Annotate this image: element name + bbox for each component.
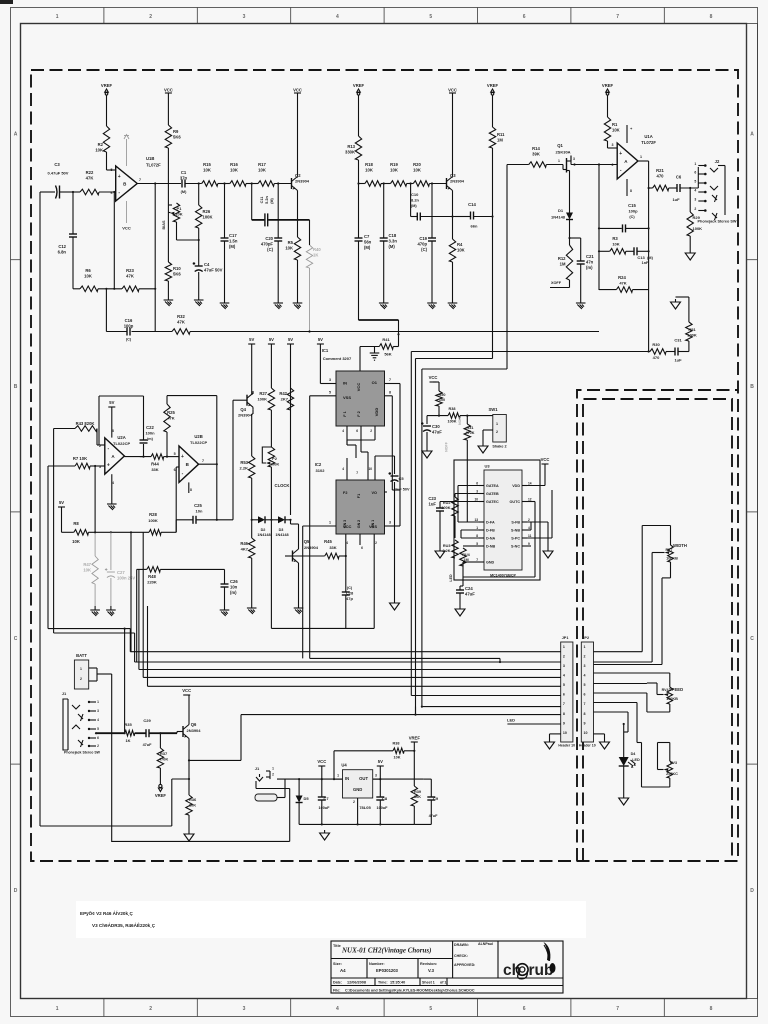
- capacitor C29: [145, 729, 147, 737]
- svg-text:3: 3: [573, 157, 575, 161]
- svg-text:R23: R23: [126, 268, 134, 273]
- svg-text:2: 2: [353, 800, 355, 804]
- svg-text:WIDTH: WIDTH: [673, 543, 687, 548]
- svg-text:C17: C17: [229, 233, 237, 238]
- svg-text:R4: R4: [457, 242, 463, 247]
- svg-text:(M): (M): [411, 204, 417, 208]
- wire q6 e: [188, 741, 190, 761]
- svg-text:C9: C9: [433, 796, 439, 801]
- svg-text:10K: 10K: [612, 127, 620, 132]
- svg-text:1uF: 1uF: [429, 501, 437, 506]
- svg-text:C19: C19: [419, 236, 427, 241]
- wire R43 left: [53, 429, 55, 634]
- wire gnd rail: [299, 823, 414, 825]
- JP1 gnd: [550, 733, 561, 735]
- svg-text:D-NB: D-NB: [486, 544, 496, 548]
- resistor R39: [413, 751, 415, 786]
- resistor R27: [268, 388, 274, 410]
- svg-text:IC2: IC2: [315, 462, 322, 467]
- resistor R16: [230, 181, 246, 187]
- svg-text:5: 5: [329, 391, 331, 395]
- svg-text:TL022CP: TL022CP: [113, 441, 130, 446]
- svg-text:(m): (m): [586, 265, 593, 270]
- IC1 top vcc: [359, 347, 361, 372]
- wire U2B fb: [175, 520, 177, 533]
- capacitor C12: [72, 192, 74, 234]
- svg-text:R48: R48: [148, 574, 156, 579]
- svg-text:P2: P2: [272, 456, 278, 461]
- ground SW1: [482, 443, 484, 446]
- svg-text:GND: GND: [486, 560, 495, 564]
- svg-text:VREF: VREF: [353, 83, 365, 88]
- capacitor C10: [410, 184, 412, 217]
- svg-text:470K: 470K: [465, 431, 474, 435]
- svg-text:9: 9: [563, 721, 565, 725]
- capacitor C30: [426, 416, 428, 424]
- svg-text:33K: 33K: [329, 545, 336, 550]
- svg-text:Q6: Q6: [191, 722, 197, 727]
- svg-text:R8: R8: [73, 521, 79, 526]
- ground C4: [198, 296, 200, 300]
- svg-text:R20: R20: [413, 162, 421, 167]
- svg-text:5: 5: [584, 683, 586, 687]
- wire lfo vert1: [130, 532, 132, 651]
- svg-text:R14: R14: [532, 146, 540, 151]
- svg-text:OUT: OUT: [359, 776, 368, 781]
- ground C24: [459, 606, 461, 609]
- wire bias: [167, 148, 169, 262]
- wire jp2 p4: [594, 672, 670, 674]
- wire vcc row: [427, 415, 448, 417]
- svg-text:5V: 5V: [288, 337, 293, 342]
- U1A power: [626, 125, 628, 143]
- svg-text:C7: C7: [364, 234, 370, 239]
- wire R45-IC2: [345, 540, 347, 556]
- svg-text:330K: 330K: [345, 149, 355, 154]
- svg-text:F 2: F 2: [357, 411, 361, 417]
- capacitor C20: [277, 184, 279, 239]
- control panel dashed boundary inner: [583, 399, 732, 861]
- svg-text:2: 2: [528, 518, 530, 522]
- svg-text:8: 8: [112, 429, 114, 433]
- svg-text:VREF: VREF: [155, 793, 167, 798]
- resistor R23: [122, 286, 139, 292]
- svg-text:1uF: 1uF: [672, 197, 680, 202]
- svg-text:8: 8: [389, 391, 391, 395]
- cherub logo: [503, 942, 556, 979]
- svg-text:3: 3: [389, 521, 391, 525]
- svg-text:D3: D3: [279, 528, 284, 532]
- svg-text:C:\Documents and Settings\Kyle: C:\Documents and Settings\Kyle.KYLES-ROO…: [345, 989, 475, 993]
- svg-text:R43 820K: R43 820K: [76, 421, 95, 426]
- resistor R28: [149, 530, 161, 536]
- svg-text:2: 2: [97, 744, 99, 748]
- svg-text:CHECK:: CHECK:: [454, 954, 468, 958]
- ground power: [324, 830, 326, 833]
- svg-text:V.3: V.3: [428, 968, 435, 973]
- svg-text:R9: R9: [173, 129, 179, 134]
- svg-text:2: 2: [375, 541, 377, 545]
- capacitor C21: [580, 238, 582, 261]
- svg-text:7: 7: [139, 178, 141, 182]
- svg-text:4: 4: [336, 14, 339, 20]
- svg-text:3: 3: [584, 664, 586, 668]
- svg-text:C14: C14: [468, 202, 476, 207]
- resistor R18: [365, 181, 381, 187]
- svg-text:5V: 5V: [318, 337, 323, 342]
- svg-text:13: 13: [474, 518, 478, 522]
- svg-text:4: 4: [563, 674, 565, 678]
- svg-text:C22: C22: [146, 425, 154, 430]
- svg-text:10K: 10K: [413, 167, 421, 172]
- svg-text:B: B: [750, 384, 754, 390]
- control panel dashed divider: [577, 390, 738, 861]
- svg-text:100KB: 100KB: [666, 697, 678, 701]
- wire riser A: [410, 352, 412, 696]
- resistor R37: [159, 733, 161, 748]
- op-amp U1A: [617, 143, 638, 179]
- IC2 top pins: [346, 458, 348, 480]
- svg-text:47K: 47K: [86, 175, 94, 180]
- pot RV7 width: [668, 545, 674, 562]
- capacitor C7b: [321, 779, 323, 797]
- svg-text:C7: C7: [323, 796, 329, 801]
- wire Q5 base: [285, 555, 293, 557]
- wire riser C: [421, 369, 423, 707]
- svg-text:APPROVED:: APPROVED:: [454, 963, 475, 967]
- wire mute: [171, 779, 173, 826]
- feedback net: [598, 165, 600, 291]
- U2A gnd: [111, 474, 113, 500]
- svg-text:VCC: VCC: [293, 88, 302, 93]
- svg-text:1M: 1M: [497, 137, 503, 142]
- diode D2: [252, 519, 258, 521]
- svg-text:TL022CP: TL022CP: [190, 440, 207, 445]
- svg-text:11: 11: [528, 534, 532, 538]
- svg-text:S-FB: S-FB: [511, 520, 520, 524]
- svg-text:9: 9: [528, 542, 530, 546]
- wire Q2 emitter: [297, 193, 299, 238]
- svg-text:1: 1: [97, 700, 99, 704]
- svg-text:5K6: 5K6: [173, 134, 181, 139]
- svg-text:C16: C16: [125, 318, 133, 323]
- svg-text:R50: R50: [439, 393, 446, 397]
- svg-text:4: 4: [342, 467, 344, 471]
- capacitor C19: [431, 184, 433, 239]
- wire jp2 p5: [594, 683, 647, 685]
- svg-text:56n: 56n: [364, 239, 372, 244]
- svg-text:8: 8: [190, 488, 192, 492]
- op-amp U1B: [116, 166, 138, 201]
- svg-text:5: 5: [563, 683, 565, 687]
- svg-text:470: 470: [657, 173, 665, 178]
- wire ic2 riser: [391, 404, 393, 490]
- svg-text:3: 3: [243, 1006, 246, 1012]
- wire j3 left: [255, 781, 257, 789]
- svg-text:R22: R22: [86, 170, 94, 175]
- svg-text:SW1: SW1: [488, 407, 498, 412]
- svg-text:1N4148: 1N4148: [257, 533, 270, 537]
- wire osc out: [216, 519, 218, 521]
- svg-text:1M: 1M: [560, 261, 566, 266]
- svg-text:100n: 100n: [145, 431, 155, 436]
- svg-text:rub: rub: [529, 962, 554, 979]
- wire R14-Q1: [546, 164, 563, 166]
- svg-text:Revision:: Revision:: [420, 962, 437, 966]
- long bus 658: [310, 657, 500, 659]
- svg-text:R53: R53: [240, 460, 248, 465]
- svg-text:100: 100: [439, 398, 445, 402]
- svg-text:100p: 100p: [628, 209, 638, 214]
- svg-text:R7 10K: R7 10K: [73, 456, 87, 461]
- bus v5: [142, 604, 144, 677]
- svg-text:C12: C12: [58, 244, 66, 249]
- capacitor C27 not fitted: [110, 532, 112, 570]
- capacitor C22: [140, 456, 144, 458]
- resistor RU3: [452, 540, 458, 558]
- capacitor C4: [198, 240, 200, 266]
- svg-text:3: 3: [243, 14, 246, 20]
- svg-text:6: 6: [356, 429, 358, 433]
- svg-text:RU4: RU4: [462, 553, 470, 557]
- wire fb pin6: [113, 192, 115, 289]
- transistor Q4: [246, 395, 248, 406]
- wire D1 bottom: [570, 237, 581, 239]
- resistor R31: [466, 416, 468, 424]
- svg-text:2.2K: 2.2K: [442, 549, 450, 553]
- wire R22 to pin6: [99, 191, 116, 193]
- svg-text:1: 1: [80, 667, 82, 671]
- svg-text:R36: R36: [189, 797, 197, 802]
- svg-text:1: 1: [558, 159, 560, 163]
- svg-text:C: C: [14, 636, 18, 642]
- svg-text:8: 8: [476, 534, 478, 538]
- svg-text:6: 6: [361, 546, 363, 550]
- svg-text:D-FB: D-FB: [486, 528, 495, 532]
- svg-text:VREF: VREF: [487, 83, 499, 88]
- svg-text:100K: 100K: [203, 214, 213, 219]
- svg-text:R46: R46: [240, 541, 248, 546]
- svg-text:4: 4: [336, 1006, 339, 1012]
- wire f1: [346, 426, 348, 445]
- svg-text:Sheet 1: Sheet 1: [422, 981, 435, 985]
- pot P1: [168, 204, 172, 206]
- ground Q5: [298, 604, 300, 608]
- svg-text:VCC: VCC: [122, 226, 131, 231]
- ground C27: [110, 606, 112, 610]
- svg-text:CLOCK: CLOCK: [275, 483, 290, 488]
- svg-text:F1: F1: [357, 494, 361, 498]
- resistor R48: [137, 568, 147, 570]
- svg-text:(m): (m): [147, 437, 154, 441]
- resistor R49: [379, 344, 393, 350]
- capacitor C31: [666, 351, 675, 353]
- svg-text:+: +: [107, 463, 110, 469]
- svg-text:12: 12: [528, 498, 532, 502]
- svg-text:10n: 10n: [196, 509, 203, 514]
- svg-text:2N3904: 2N3904: [186, 728, 201, 733]
- svg-text:IN: IN: [345, 776, 349, 781]
- svg-text:GN 3: GN 3: [343, 520, 347, 528]
- svg-text:(C): (C): [267, 247, 273, 252]
- svg-text:3: 3: [612, 143, 614, 147]
- svg-text:(M): (M): [389, 244, 396, 249]
- svg-text:R21: R21: [656, 168, 664, 173]
- svg-text:47uF: 47uF: [432, 429, 442, 434]
- svg-text:1: 1: [329, 521, 331, 525]
- bus v6: [147, 610, 149, 686]
- svg-text:R41: R41: [382, 337, 390, 342]
- svg-text:JP1: JP1: [562, 636, 569, 640]
- svg-text:10K: 10K: [95, 147, 103, 152]
- resistor R8: [62, 531, 74, 533]
- bus p6: [411, 695, 560, 697]
- resistor R47 not fitted: [94, 466, 96, 532]
- resistor R15: [202, 181, 218, 187]
- capacitor C16: [126, 328, 128, 336]
- header JP1: [561, 642, 573, 742]
- svg-text:U1A: U1A: [644, 134, 652, 139]
- svg-text:C18: C18: [389, 233, 397, 238]
- wire U1B out: [137, 183, 181, 185]
- svg-text:R47: R47: [83, 562, 91, 567]
- resistor R10: [165, 262, 171, 281]
- svg-text:R15: R15: [203, 162, 211, 167]
- svg-text:R44: R44: [151, 462, 159, 467]
- resistor R38b: [448, 413, 460, 419]
- ground bias: [167, 281, 169, 296]
- svg-text:100K: 100K: [447, 420, 456, 424]
- resistor R12: [566, 245, 572, 280]
- svg-text:2.2K: 2.2K: [240, 466, 249, 471]
- svg-text:U2A: U2A: [117, 435, 125, 440]
- svg-text:(m): (m): [230, 590, 237, 595]
- svg-text:+: +: [181, 454, 184, 460]
- svg-text:Phonejack Stereo SW: Phonejack Stereo SW: [64, 751, 101, 755]
- svg-text:2: 2: [370, 429, 372, 433]
- svg-text:7: 7: [616, 14, 619, 20]
- svg-text:R29: R29: [693, 215, 701, 220]
- svg-text:S-NB: S-NB: [511, 528, 520, 532]
- svg-text:8: 8: [563, 712, 565, 716]
- svg-text:2N3904: 2N3904: [450, 178, 465, 183]
- capacitor C9: [414, 823, 431, 825]
- svg-text:10: 10: [474, 498, 478, 502]
- svg-text:1N4148: 1N4148: [275, 533, 288, 537]
- svg-text:8: 8: [630, 189, 632, 193]
- svg-text:10K: 10K: [285, 245, 293, 250]
- svg-text:7: 7: [389, 378, 391, 382]
- svg-text:GN 2: GN 2: [357, 520, 361, 528]
- ground R36: [188, 831, 190, 834]
- svg-text:6: 6: [523, 14, 526, 20]
- wire R13 node: [359, 183, 365, 185]
- svg-text:JP2: JP2: [582, 636, 589, 640]
- svg-text:Q5: Q5: [304, 539, 310, 544]
- svg-text:R35: R35: [124, 722, 132, 727]
- svg-text:R24: R24: [618, 275, 626, 280]
- svg-text:56K: 56K: [384, 352, 391, 357]
- svg-text:R30: R30: [652, 342, 660, 347]
- U3 left wires: [458, 485, 479, 487]
- wire footswitch: [124, 629, 126, 734]
- svg-text:R17: R17: [258, 162, 266, 167]
- svg-text:100K: 100K: [441, 506, 450, 510]
- svg-text:R39: R39: [414, 790, 421, 794]
- svg-text:J2: J2: [715, 159, 720, 164]
- diode D5: [298, 779, 300, 796]
- svg-text:6: 6: [97, 736, 99, 740]
- pot RV4 speed: [667, 687, 673, 704]
- svg-text:U2B: U2B: [194, 434, 202, 439]
- pot RV3: [641, 743, 643, 788]
- svg-text:R2: R2: [98, 142, 104, 147]
- resistor R46b: [251, 520, 253, 538]
- svg-text:C20: C20: [265, 236, 273, 241]
- svg-text:10: 10: [368, 467, 372, 471]
- svg-text:R11: R11: [497, 132, 505, 137]
- svg-text:10K: 10K: [84, 273, 92, 278]
- svg-text:1N4148: 1N4148: [551, 215, 566, 220]
- svg-text:10K: 10K: [189, 803, 196, 808]
- svg-text:10K: 10K: [457, 247, 465, 252]
- resistor R32: [172, 329, 190, 335]
- resistor R4: [449, 239, 455, 262]
- svg-text:C30: C30: [432, 424, 440, 429]
- svg-text:U3: U3: [484, 464, 490, 469]
- resistor R50: [436, 391, 442, 406]
- transistor Q6: [182, 726, 184, 737]
- svg-text:47n: 47n: [586, 259, 594, 264]
- svg-text:6: 6: [584, 693, 586, 697]
- svg-text:(C): (C): [421, 247, 427, 252]
- svg-text:47uF: 47uF: [143, 743, 153, 747]
- svg-text:(M): (M): [229, 244, 236, 249]
- wire jp2 p1: [594, 651, 643, 653]
- svg-text:3.3n: 3.3n: [389, 238, 398, 243]
- regulator U4: [343, 770, 373, 798]
- svg-text:VSS: VSS: [343, 395, 351, 400]
- svg-text:EPÿÕ¢ V2 R46 ÁÍV20k¸Ç: EPÿÕ¢ V2 R46 ÁÍV20k¸Ç: [80, 909, 134, 916]
- J1 contacts: [90, 701, 96, 703]
- svg-text:5: 5: [694, 180, 696, 184]
- svg-text:10K: 10K: [612, 242, 619, 247]
- svg-text:of 1: of 1: [440, 981, 446, 985]
- svg-text:6: 6: [694, 171, 696, 175]
- svg-text:C25: C25: [194, 503, 202, 508]
- capacitor C14: [455, 216, 471, 218]
- svg-text:47p: 47p: [346, 596, 353, 601]
- svg-text:GATEC: GATEC: [486, 500, 499, 504]
- svg-text:R27: R27: [259, 391, 267, 396]
- wire Q5 e: [298, 565, 300, 604]
- svg-text:C11: C11: [260, 197, 264, 204]
- svg-text:RU2: RU2: [443, 501, 451, 505]
- svg-text:LED: LED: [449, 574, 453, 582]
- svg-text:VO: VO: [372, 491, 378, 495]
- svg-text:3: 3: [375, 774, 377, 778]
- svg-text:7: 7: [563, 702, 565, 706]
- svg-text:R38: R38: [449, 407, 456, 411]
- svg-text:C27: C27: [117, 570, 125, 575]
- svg-text:C23: C23: [428, 496, 436, 501]
- svg-text:LED: LED: [632, 758, 640, 762]
- U1B vee stub: [126, 201, 128, 223]
- svg-text:+: +: [118, 174, 121, 180]
- resistor R53: [249, 456, 255, 478]
- svg-text:Q1: Q1: [557, 143, 563, 148]
- note block: [76, 901, 586, 938]
